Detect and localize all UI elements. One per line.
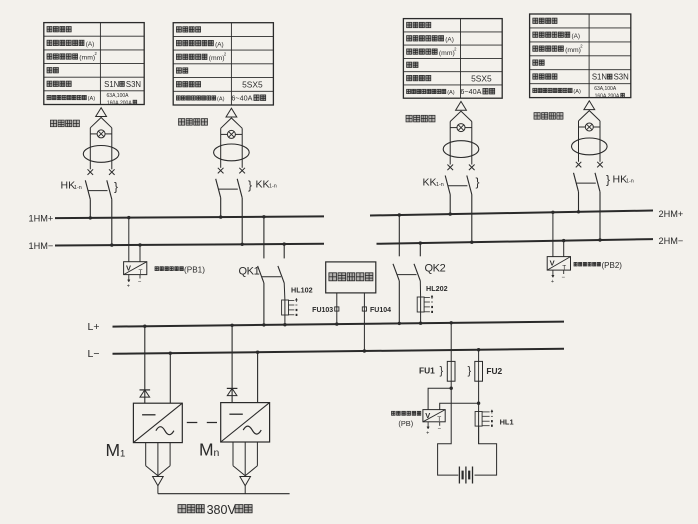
circuit label 合闸回路 feeder 1 [50, 120, 79, 127]
fuse FU2 [468, 348, 503, 444]
switch HK1-n blades feeder 1 [85, 180, 112, 199]
svg-text:HL202: HL202 [426, 284, 448, 293]
plug-in连接 triangle, feeder 2 [226, 108, 237, 117]
svg-text:2HM+: 2HM+ [659, 209, 684, 219]
switch KK1-n blades feeder 3 [445, 176, 472, 195]
svg-text:}: } [114, 180, 118, 194]
svg-text:1HM+: 1HM+ [29, 213, 54, 223]
contact x marks feeder 4 [576, 162, 603, 168]
svg-text:}: } [468, 365, 472, 377]
svg-text:(A): (A) [445, 37, 454, 44]
svg-text:(A): (A) [447, 90, 455, 96]
voltmeter PB1 box [124, 262, 147, 276]
svg-text:QK2: QK2 [425, 262, 446, 274]
wire: PB1 left leg to 1HM+ [127, 216, 130, 262]
contact x marks feeder 1 [88, 169, 115, 175]
svg-text:1-n: 1-n [436, 182, 444, 188]
wire: battery loop right [475, 426, 497, 475]
svg-text:(A): (A) [88, 96, 96, 102]
svg-text:QK1: QK1 [239, 265, 260, 277]
wire: PB2 left leg to 2HM+ [551, 211, 554, 257]
label 电池电压监测(PB) [392, 411, 421, 428]
battery GB cells [459, 467, 472, 484]
plug-in连接 triangle, feeder 1 [96, 108, 107, 117]
PB2 polarity marks [551, 270, 566, 285]
svg-text:5SX5: 5SX5 [471, 73, 492, 83]
wire: HK right pole to 2HM- [598, 192, 601, 242]
wire: Mn negative lead to L- [256, 351, 259, 403]
wire: QK2 left pole to L+ [398, 281, 401, 325]
PB1 polarity marks [127, 275, 142, 290]
svg-text:5SX5: 5SX5 [242, 79, 263, 89]
svg-text:T: T [562, 264, 566, 271]
bus 1HM- [29, 241, 325, 251]
svg-text:n: n [214, 447, 220, 459]
wire: HK right pole to 1HM- [110, 199, 113, 247]
wire: PB left terminal to FU1 node [428, 387, 453, 410]
indicator lamp HL1 [475, 410, 513, 427]
wire: KK left pole to 2HM+ [449, 195, 452, 216]
svg-text:63A,100A: 63A,100A [107, 93, 130, 99]
contact x marks feeder 2 [218, 168, 245, 174]
svg-text:6~40A: 6~40A [460, 87, 481, 96]
breaker unit outline (chevron+verticals) feeder 1 [90, 118, 112, 170]
indicator lamp ⊗ feeder 4 [579, 123, 601, 131]
svg-text:−: − [138, 279, 142, 285]
svg-text:(PB1): (PB1) [184, 265, 205, 274]
switch QK2 [393, 213, 446, 280]
wire: M1 negative lead to L- [169, 352, 172, 404]
wire: KK right pole to 2HM- [470, 195, 473, 244]
feeder table T4 (馈线参数表) [530, 14, 631, 100]
feeder table T2 (馈线参数表) [173, 23, 273, 105]
AC supply line 至交流380V电源 [158, 494, 290, 517]
svg-text:S1N: S1N [104, 80, 119, 89]
indicator lamp ⊗ feeder 1 [90, 130, 112, 138]
svg-text:63A,100A: 63A,100A [594, 86, 617, 92]
svg-text:+: + [551, 279, 554, 285]
wire: battery loop left [438, 388, 459, 475]
label KK1-n feeder 3 [423, 175, 480, 189]
svg-text:160A,200A: 160A,200A [595, 94, 620, 100]
diode on M1 positive lead [140, 325, 151, 404]
bus 1HM+ [29, 213, 325, 223]
svg-text:FU1: FU1 [419, 365, 435, 375]
fuse FU1 [419, 321, 455, 388]
plug-in连接 triangle, feeder 3 [456, 101, 467, 110]
wire: PB1 right leg to 1HM- [138, 243, 141, 261]
bus 2HM+ [370, 209, 683, 219]
plug-in连接 triangle, feeder 4 [584, 101, 595, 110]
svg-text:2HM−: 2HM− [659, 236, 684, 246]
indicator lamp ⊗ feeder 2 [221, 130, 243, 138]
svg-text:S3N: S3N [126, 80, 141, 89]
switch KK1-n blades feeder 2 [216, 179, 243, 198]
label KK1-n feeder 2 [248, 178, 277, 192]
circuit label 控制回路 feeder 3 [406, 115, 435, 122]
breaker unit outline (chevron+verticals) feeder 4 [579, 111, 601, 162]
svg-text:}: } [476, 175, 480, 189]
breaker unit outline (chevron+verticals) feeder 2 [221, 118, 243, 168]
svg-text:+: + [426, 431, 429, 437]
svg-text:(PB2): (PB2) [602, 261, 623, 270]
circuit label 合闸回路 feeder 4 [534, 113, 563, 120]
coil/transformer ellipse feeder 1 [83, 146, 119, 163]
svg-text:L+: L+ [88, 321, 100, 333]
rectifier module Mn box [221, 403, 270, 442]
label M1 [106, 440, 126, 460]
contact x marks feeder 3 [447, 165, 474, 171]
svg-text:V: V [550, 259, 555, 268]
bus L- [88, 348, 565, 360]
wire: QK1 left pole to L+ [262, 283, 265, 327]
svg-text:(A): (A) [572, 33, 581, 40]
svg-text:2: 2 [95, 51, 98, 56]
svg-text:M: M [106, 440, 121, 460]
fuse FU103 [312, 293, 339, 326]
svg-text:(A): (A) [215, 41, 224, 48]
svg-text:1-n: 1-n [626, 179, 634, 185]
svg-text:(A): (A) [217, 97, 225, 103]
battery voltmeter PB box [423, 410, 445, 424]
svg-text:FU2: FU2 [486, 366, 502, 376]
label 直流电压监测(PB1) [155, 265, 205, 274]
feeder table T3 (馈线参数表) [403, 19, 502, 99]
switch HK1-n blades feeder 4 [574, 173, 601, 192]
svg-text:(mm): (mm) [439, 50, 455, 57]
svg-text:KK: KK [256, 178, 270, 190]
svg-text:HL102: HL102 [291, 286, 313, 295]
indicator lamp HL102 [282, 283, 313, 327]
svg-text:2: 2 [224, 52, 227, 57]
Mn output funnel and arrow to AC line [233, 442, 257, 494]
wire: PB2 right leg to 2HM- [562, 239, 565, 257]
svg-text:HK: HK [613, 173, 628, 185]
svg-text:1HM−: 1HM− [29, 241, 54, 251]
svg-text:V: V [126, 264, 131, 273]
insulation monitor 绝缘监测仪 box [326, 262, 376, 293]
svg-text:(mm): (mm) [565, 47, 581, 54]
wire: KK right pole to 1HM- [241, 198, 244, 246]
svg-text:(A): (A) [573, 89, 581, 95]
svg-text:M: M [199, 440, 214, 460]
svg-text:FU103: FU103 [312, 307, 333, 314]
svg-text:}: } [606, 173, 610, 187]
svg-text:1-n: 1-n [74, 185, 82, 191]
svg-text:160A,200A: 160A,200A [107, 100, 132, 106]
coil/transformer ellipse feeder 3 [443, 141, 479, 158]
bus L+ [88, 321, 565, 333]
circuit label 控制回路 feeder 2 [179, 119, 208, 126]
rectifier module M1 box [133, 403, 182, 442]
svg-text:T: T [139, 269, 143, 276]
svg-text:V: V [425, 411, 430, 420]
svg-text:2: 2 [454, 46, 457, 51]
svg-text:S3N: S3N [614, 73, 629, 82]
feeder table T1 (馈线参数表) [44, 23, 144, 107]
wire: HK left pole to 1HM+ [89, 199, 92, 219]
dashed link between M1 and Mn [187, 422, 217, 424]
label 直流电压监测(PB2) [574, 261, 622, 270]
indicator lamp HL202 [417, 281, 447, 325]
svg-text:1: 1 [120, 449, 125, 460]
svg-text:FU104: FU104 [370, 307, 391, 314]
fuse FU104 [362, 293, 391, 353]
wire: HK left pole to 2HM+ [577, 192, 580, 214]
svg-text:−: − [438, 427, 442, 433]
svg-text:}: } [440, 365, 444, 377]
svg-text:}: } [248, 178, 252, 192]
svg-text:1-n: 1-n [269, 184, 277, 190]
voltmeter PB2 box [547, 257, 570, 272]
bus 2HM- [377, 236, 684, 246]
svg-text:T: T [437, 416, 441, 423]
breaker unit outline (chevron+verticals) feeder 3 [450, 111, 472, 164]
diode on Mn positive lead [227, 324, 238, 403]
wire: PB right terminal to FU2 line [440, 402, 481, 410]
label HK1-n feeder 1 [61, 180, 119, 194]
wire: KK left pole to 1HM+ [219, 198, 222, 219]
svg-text:380V: 380V [207, 503, 237, 517]
svg-text:HK: HK [61, 180, 76, 192]
coil/transformer ellipse feeder 4 [572, 138, 608, 155]
svg-text:KK: KK [423, 177, 437, 189]
M1 output funnel and arrow to AC line [146, 443, 170, 494]
svg-text:(mm): (mm) [209, 55, 225, 62]
svg-text:L−: L− [88, 348, 100, 360]
label Mn [199, 440, 220, 460]
svg-text:S1N: S1N [592, 73, 607, 82]
svg-text:(A): (A) [86, 41, 95, 48]
svg-text:6~40A: 6~40A [231, 94, 252, 103]
svg-text:2: 2 [580, 43, 583, 48]
svg-text:HL1: HL1 [500, 418, 514, 427]
coil/transformer ellipse feeder 2 [214, 144, 250, 161]
svg-text:−: − [562, 275, 566, 281]
PB polarity marks [426, 422, 441, 437]
svg-text:(PB): (PB) [398, 419, 413, 428]
svg-text:(mm): (mm) [79, 55, 95, 62]
svg-text:+: + [127, 284, 130, 290]
label HK1-n feeder 4 [606, 173, 634, 187]
indicator lamp ⊗ feeder 3 [450, 124, 472, 132]
switch QK1 [239, 215, 286, 283]
